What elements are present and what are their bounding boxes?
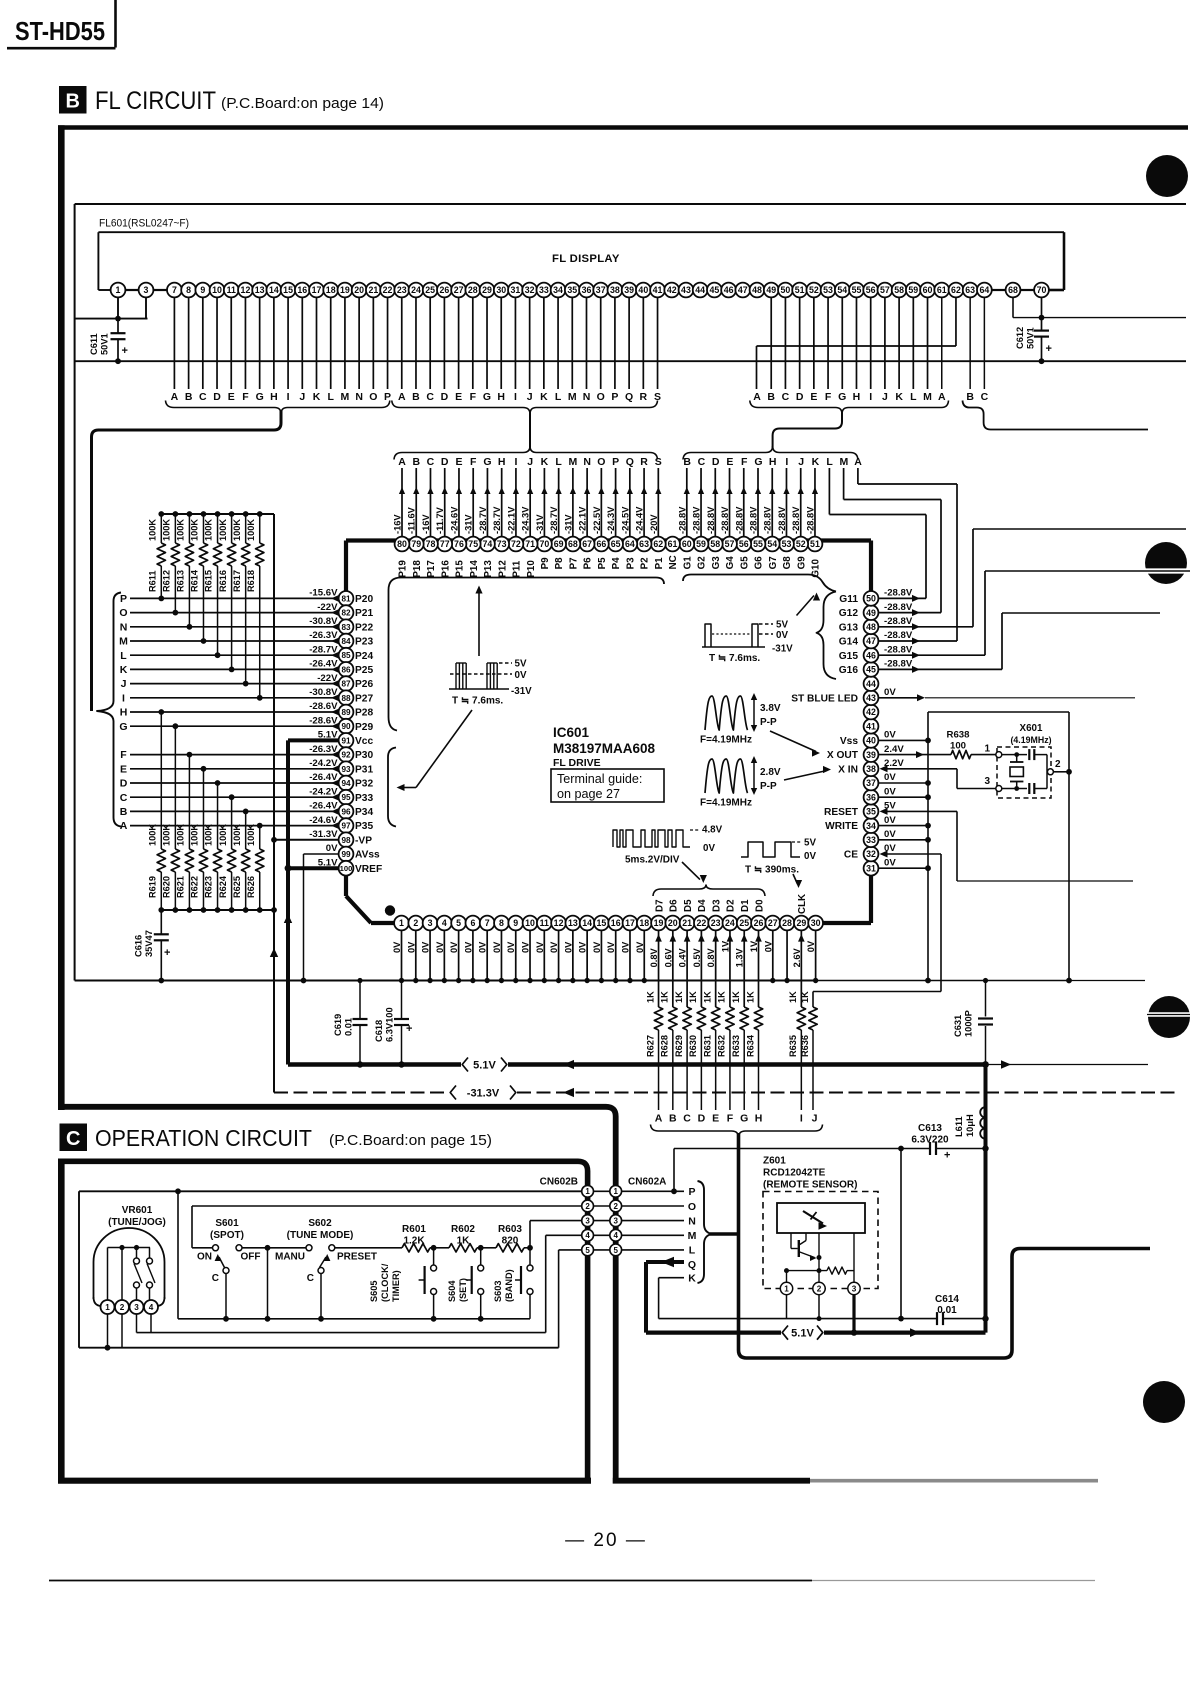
svg-text:18: 18 <box>326 285 336 295</box>
frame bottom extension right of CN602A <box>613 1478 1098 1484</box>
svg-text:Q: Q <box>626 456 634 468</box>
svg-text:-30.8V: -30.8V <box>309 687 338 698</box>
label 5.1V section C <box>782 1326 823 1340</box>
svg-text:D: D <box>698 1113 706 1125</box>
section C marker square <box>60 1124 88 1152</box>
bracket letters A-J <box>651 1125 823 1138</box>
svg-text:62: 62 <box>653 539 663 549</box>
svg-text:0V: 0V <box>563 941 573 953</box>
svg-text:(BAND): (BAND) <box>504 1269 514 1302</box>
svg-text:3: 3 <box>134 1303 139 1312</box>
svg-text:M: M <box>341 391 350 403</box>
registration mark 2 <box>1144 542 1190 584</box>
svg-text:22: 22 <box>696 918 706 928</box>
bracket IC letters A-S inverted <box>394 446 658 460</box>
svg-text:37: 37 <box>596 285 606 295</box>
labels IC bottom voltages <box>392 940 816 967</box>
svg-text:L: L <box>555 391 562 403</box>
svg-text:J: J <box>121 678 127 690</box>
svg-text:51: 51 <box>795 285 805 295</box>
svg-text:1K: 1K <box>702 991 712 1003</box>
svg-text:1: 1 <box>585 1187 590 1196</box>
svg-text:3: 3 <box>984 776 990 787</box>
svg-text:25: 25 <box>425 285 435 295</box>
svg-text:G7: G7 <box>768 556 779 570</box>
svg-text:0V: 0V <box>703 843 715 854</box>
svg-text:50: 50 <box>781 285 791 295</box>
svg-text:I: I <box>800 1113 803 1125</box>
svg-text:S604: S604 <box>447 1280 457 1302</box>
svg-text:+: + <box>122 345 128 357</box>
capacitor C614 <box>935 1294 985 1325</box>
svg-text:44: 44 <box>866 679 876 689</box>
svg-text:S603: S603 <box>493 1281 503 1302</box>
svg-text:S605: S605 <box>369 1281 379 1302</box>
junction dot VREF <box>285 865 292 872</box>
svg-text:-28.6V: -28.6V <box>309 701 338 712</box>
wire group3 elbow <box>773 410 842 449</box>
svg-text:N: N <box>583 391 591 403</box>
svg-text:100K: 100K <box>232 519 242 541</box>
svg-text:P24: P24 <box>355 651 373 662</box>
svg-text:-28.7V: -28.7V <box>478 506 488 534</box>
junction dot pins 68-70 tie <box>1039 315 1045 321</box>
svg-text:0V: 0V <box>884 829 896 840</box>
svg-text:RESET: RESET <box>824 807 859 818</box>
svg-text:1K: 1K <box>800 991 810 1003</box>
crystal X601 dashed box <box>997 747 1051 798</box>
label VR601 <box>108 1205 166 1228</box>
svg-text:CN602B: CN602B <box>540 1177 578 1188</box>
svg-text:16: 16 <box>611 918 621 928</box>
svg-text:T ≒ 7.6ms.: T ≒ 7.6ms. <box>452 696 503 707</box>
svg-text:1V: 1V <box>749 940 759 952</box>
svg-text:C: C <box>199 391 207 403</box>
svg-text:95: 95 <box>341 793 351 802</box>
svg-text:D: D <box>213 391 221 403</box>
svg-text:R633: R633 <box>731 1035 741 1057</box>
svg-text:56: 56 <box>866 285 876 295</box>
wire FL pins 49-64 verticals <box>771 297 984 389</box>
svg-text:R603: R603 <box>498 1224 522 1235</box>
svg-text:22: 22 <box>383 285 393 295</box>
node letters P-K <box>688 1186 697 1284</box>
junction dot AVss on bus <box>301 978 307 984</box>
svg-text:P22: P22 <box>355 622 373 633</box>
svg-text:F: F <box>825 391 832 403</box>
svg-text:0.4V: 0.4V <box>678 947 688 967</box>
svg-text:1K: 1K <box>745 991 755 1003</box>
svg-text:Vcc: Vcc <box>355 736 373 747</box>
svg-text:70: 70 <box>1037 285 1047 295</box>
svg-text:0.8V: 0.8V <box>649 947 659 967</box>
svg-text:R622: R622 <box>190 876 200 898</box>
IC U601 box outline <box>346 541 871 924</box>
svg-text:C: C <box>981 391 989 403</box>
svg-text:8: 8 <box>186 285 191 295</box>
svg-text:0V: 0V <box>478 941 488 953</box>
svg-text:D5: D5 <box>683 899 694 912</box>
svg-text:P12: P12 <box>497 560 508 578</box>
svg-text:+: + <box>944 1150 950 1162</box>
waveform X IN sine <box>700 756 781 809</box>
svg-text:L: L <box>555 456 562 468</box>
svg-text:R621: R621 <box>176 876 186 898</box>
svg-text:D4: D4 <box>697 899 708 912</box>
label -31.3V rail <box>450 1086 516 1100</box>
svg-text:X OUT: X OUT <box>827 750 859 761</box>
svg-text:P-P: P-P <box>760 717 777 728</box>
svg-text:P23: P23 <box>355 637 373 648</box>
svg-text:P: P <box>611 391 618 403</box>
svg-text:O: O <box>119 607 127 619</box>
svg-text:17: 17 <box>312 285 322 295</box>
svg-text:64: 64 <box>625 539 635 549</box>
node letters A-J <box>655 1113 818 1125</box>
svg-text:E: E <box>726 456 733 468</box>
svg-text:E: E <box>712 1113 719 1125</box>
svg-text:0V: 0V <box>521 941 531 953</box>
bracket group1 A-P <box>166 401 390 415</box>
svg-text:FL601(RSL0247~F): FL601(RSL0247~F) <box>99 218 189 230</box>
title box corner <box>7 0 116 48</box>
svg-text:0V: 0V <box>763 940 773 952</box>
svg-text:54: 54 <box>837 285 847 295</box>
svg-text:25: 25 <box>739 918 749 928</box>
VR601 internal contacts <box>108 1245 156 1300</box>
capacitor C618 <box>374 981 412 1068</box>
svg-text:0.01: 0.01 <box>937 1305 957 1316</box>
svg-text:T ≒ 7.6ms.: T ≒ 7.6ms. <box>709 653 760 664</box>
svg-text:44: 44 <box>695 285 705 295</box>
svg-text:36: 36 <box>582 285 592 295</box>
labels IC left voltages <box>309 588 338 869</box>
svg-text:D: D <box>441 456 449 468</box>
svg-text:-28.8V: -28.8V <box>884 630 913 641</box>
svg-text:100K: 100K <box>232 824 242 846</box>
svg-text:52: 52 <box>796 539 806 549</box>
svg-text:-28.8V: -28.8V <box>763 506 773 534</box>
svg-text:F=4.19MHz: F=4.19MHz <box>700 735 752 746</box>
wires Z601 pins down <box>787 1295 858 1336</box>
svg-text:36: 36 <box>866 792 876 802</box>
IC right pin circles 50-31 <box>864 591 879 876</box>
svg-text:H: H <box>769 456 777 468</box>
svg-text:0V: 0V <box>806 940 816 952</box>
svg-text:-15.6V: -15.6V <box>309 588 338 599</box>
svg-text:R629: R629 <box>674 1035 684 1057</box>
svg-text:-31V: -31V <box>563 514 573 534</box>
registration mark 1 <box>1146 155 1188 197</box>
svg-text:B: B <box>412 456 420 468</box>
svg-text:8: 8 <box>499 918 504 928</box>
svg-text:F: F <box>120 749 127 761</box>
svg-text:G: G <box>838 391 846 403</box>
svg-text:2: 2 <box>613 1202 618 1211</box>
svg-text:46: 46 <box>724 285 734 295</box>
svg-text:C631: C631 <box>953 1015 963 1037</box>
svg-text:57: 57 <box>880 285 890 295</box>
crystal X601 contacts <box>996 752 1054 792</box>
svg-text:59: 59 <box>696 539 706 549</box>
svg-text:35: 35 <box>866 807 876 817</box>
svg-text:R627: R627 <box>645 1035 655 1057</box>
wire AVss jog <box>304 854 339 981</box>
arrow waveform1 to P30 bracket <box>397 710 473 791</box>
junction dot C613 left <box>898 1146 904 1152</box>
registration mark 4 <box>1143 1381 1185 1423</box>
wire 5.1V rail <box>288 1060 1148 1069</box>
wire FL pin 3 stub <box>145 297 147 318</box>
svg-text:5.1V: 5.1V <box>473 1060 496 1072</box>
svg-text:33: 33 <box>866 835 876 845</box>
svg-text:P19: P19 <box>398 560 409 578</box>
svg-text:3: 3 <box>613 1216 618 1225</box>
svg-text:P3: P3 <box>625 557 636 570</box>
svg-text:65: 65 <box>611 539 621 549</box>
svg-text:J: J <box>812 1113 818 1125</box>
svg-text:18: 18 <box>639 918 649 928</box>
svg-text:-28.8V: -28.8V <box>706 506 716 534</box>
resistor R601 1.2K <box>335 1224 437 1252</box>
svg-text:63: 63 <box>639 539 649 549</box>
svg-text:N: N <box>355 391 363 403</box>
svg-text:78: 78 <box>426 539 436 549</box>
svg-text:(P.C.Board:on page 14): (P.C.Board:on page 14) <box>221 96 384 112</box>
svg-text:-28.8V: -28.8V <box>884 644 913 655</box>
svg-text:VR601: VR601 <box>122 1205 153 1216</box>
crystal X601 element <box>1002 752 1024 791</box>
svg-text:R632: R632 <box>717 1035 727 1057</box>
svg-text:15: 15 <box>597 918 607 928</box>
svg-text:100K: 100K <box>246 824 256 846</box>
svg-text:0V: 0V <box>449 941 459 953</box>
Z601 pin circles <box>780 1282 860 1294</box>
svg-text:P31: P31 <box>355 764 373 775</box>
svg-text:O: O <box>369 391 377 403</box>
svg-text:B: B <box>683 456 691 468</box>
wire C613 line <box>674 1149 930 1192</box>
svg-text:35: 35 <box>567 285 577 295</box>
label CN602B <box>540 1177 578 1188</box>
svg-text:42: 42 <box>667 285 677 295</box>
svg-text:G: G <box>483 391 491 403</box>
svg-text:79: 79 <box>411 539 421 549</box>
svg-text:A: A <box>655 1113 663 1125</box>
wire FL601 top line <box>75 203 1186 205</box>
capacitor C619 <box>333 978 368 1068</box>
svg-text:G: G <box>754 456 762 468</box>
svg-text:P-P: P-P <box>760 781 777 792</box>
wire FL display outline <box>98 232 1064 290</box>
svg-text:0V: 0V <box>435 941 445 953</box>
wire IC left pin leads P20-P35 <box>130 595 339 829</box>
svg-text:0V: 0V <box>592 941 602 953</box>
svg-text:R623: R623 <box>204 876 214 898</box>
svg-text:I: I <box>869 391 872 403</box>
resistor R603 820 <box>481 1224 533 1252</box>
svg-text:5V: 5V <box>776 620 788 631</box>
svg-text:-28.8V: -28.8V <box>791 506 801 534</box>
svg-text:D0: D0 <box>754 899 765 912</box>
svg-text:1: 1 <box>105 1303 110 1312</box>
svg-text:R618: R618 <box>246 570 256 592</box>
svg-text:0V: 0V <box>326 843 338 854</box>
svg-text:21: 21 <box>368 285 378 295</box>
junction dot X601 loop on 0V bus <box>1066 978 1072 984</box>
svg-text:M: M <box>688 1230 697 1242</box>
wire pin32 CE jog <box>813 851 941 1008</box>
svg-text:C: C <box>307 1273 314 1284</box>
svg-text:P5: P5 <box>597 557 608 570</box>
svg-text:75: 75 <box>468 539 478 549</box>
page number <box>565 1530 647 1551</box>
svg-text:12: 12 <box>241 285 251 295</box>
svg-text:34: 34 <box>866 821 876 831</box>
resistor R636 1K <box>800 991 817 1110</box>
svg-text:A: A <box>753 391 761 403</box>
svg-text:J: J <box>882 391 888 403</box>
svg-text:(SPOT): (SPOT) <box>210 1230 244 1241</box>
svg-text:100: 100 <box>340 864 353 873</box>
svg-text:CE: CE <box>844 850 858 861</box>
module Z601 dashed box <box>763 1192 878 1289</box>
svg-text:ST BLUE LED: ST BLUE LED <box>791 693 858 704</box>
svg-text:24: 24 <box>411 285 421 295</box>
svg-text:26: 26 <box>439 285 449 295</box>
svg-text:29: 29 <box>482 285 492 295</box>
svg-text:53: 53 <box>782 539 792 549</box>
svg-text:(SET): (SET) <box>458 1278 468 1302</box>
svg-text:R631: R631 <box>702 1035 712 1057</box>
svg-text:-24.2V: -24.2V <box>309 758 338 769</box>
svg-text:A: A <box>171 391 179 403</box>
svg-text:97: 97 <box>341 822 351 831</box>
node IC letters A-S <box>398 456 662 468</box>
svg-text:100K: 100K <box>190 824 200 846</box>
bracket IC letters G-group inverted <box>683 446 858 460</box>
svg-text:0.5V: 0.5V <box>692 947 702 967</box>
wire G13 to page edge <box>878 529 1186 630</box>
svg-text:47: 47 <box>866 636 876 646</box>
junction dot CN602A row1 <box>671 1188 677 1194</box>
svg-text:96: 96 <box>341 807 351 816</box>
svg-text:-31V: -31V <box>535 514 545 534</box>
svg-text:68: 68 <box>1008 285 1018 295</box>
junction dot Vss bus on 0V bus <box>925 978 931 984</box>
wire K to Z601 pin1 <box>659 1278 787 1319</box>
svg-text:G1: G1 <box>682 556 693 570</box>
svg-text:50: 50 <box>866 594 876 604</box>
svg-text:P21: P21 <box>355 608 373 619</box>
svg-text:L: L <box>826 456 833 468</box>
svg-text:85: 85 <box>341 651 351 660</box>
svg-text:1: 1 <box>984 744 990 755</box>
svg-text:P28: P28 <box>355 708 373 719</box>
svg-text:0V: 0V <box>578 941 588 953</box>
svg-text:R616: R616 <box>218 570 228 592</box>
svg-text:-VP: -VP <box>355 835 372 846</box>
svg-text:-30.8V: -30.8V <box>309 616 338 627</box>
switch S603 BAND <box>493 1248 533 1319</box>
svg-text:37: 37 <box>866 778 876 788</box>
svg-text:CN602A: CN602A <box>628 1177 666 1188</box>
label FL601 <box>99 218 189 230</box>
bracket P19-P1 and P20-P29 group <box>389 578 665 731</box>
svg-text:41: 41 <box>866 721 876 731</box>
bottom rule <box>49 1580 1095 1582</box>
svg-text:CLK: CLK <box>797 894 808 914</box>
svg-text:-26.4V: -26.4V <box>309 801 338 812</box>
registration mark 3 <box>1147 996 1190 1038</box>
wire FL pin 68 to right edge <box>1013 297 1186 317</box>
Z601 IR symbol <box>803 1211 827 1230</box>
svg-text:K: K <box>540 391 548 403</box>
junction dot Vss pin40 <box>925 738 931 744</box>
svg-text:1K: 1K <box>731 991 741 1003</box>
svg-text:10: 10 <box>212 285 222 295</box>
arrow 5.1V riser up <box>284 914 292 923</box>
svg-text:41: 41 <box>653 285 663 295</box>
svg-text:7: 7 <box>485 918 490 928</box>
svg-text:0V: 0V <box>606 941 616 953</box>
svg-text:-11.7V: -11.7V <box>435 506 445 534</box>
wire pins 1-3 lower tie <box>75 318 148 320</box>
svg-text:G: G <box>740 1113 748 1125</box>
svg-text:2.8V: 2.8V <box>760 767 781 778</box>
svg-text:H: H <box>497 391 505 403</box>
svg-text:100K: 100K <box>204 824 214 846</box>
svg-text:RCD12042TE: RCD12042TE <box>763 1168 826 1179</box>
svg-text:N: N <box>583 456 591 468</box>
svg-text:S: S <box>655 456 662 468</box>
svg-text:99: 99 <box>341 850 351 859</box>
node letters A-S group2 <box>398 391 661 403</box>
svg-text:P15: P15 <box>455 560 466 578</box>
svg-text:PRESET: PRESET <box>337 1252 377 1263</box>
svg-text:0.6V: 0.6V <box>663 947 673 967</box>
labels G1-G10 -28.8V <box>677 506 815 534</box>
svg-text:+: + <box>164 947 170 959</box>
svg-text:77: 77 <box>440 539 450 549</box>
svg-text:A: A <box>398 391 406 403</box>
svg-text:100K: 100K <box>148 519 158 541</box>
svg-text:O: O <box>597 391 605 403</box>
svg-text:F: F <box>741 456 748 468</box>
svg-text:ST-HD55: ST-HD55 <box>15 16 105 46</box>
svg-text:5: 5 <box>456 918 461 928</box>
svg-text:1K: 1K <box>660 991 670 1003</box>
svg-text:47: 47 <box>738 285 748 295</box>
svg-text:40: 40 <box>638 285 648 295</box>
svg-text:P10: P10 <box>526 560 537 578</box>
svg-text:92: 92 <box>341 751 351 760</box>
svg-text:32: 32 <box>525 285 535 295</box>
wire -31.3V rail <box>274 1088 1175 1097</box>
svg-text:100K: 100K <box>162 824 172 846</box>
label CN602A <box>628 1177 666 1188</box>
svg-text:76: 76 <box>454 539 464 549</box>
svg-text:2: 2 <box>585 1202 590 1211</box>
svg-text:0.8V: 0.8V <box>706 947 716 967</box>
svg-text:43: 43 <box>866 693 876 703</box>
svg-text:56: 56 <box>739 539 749 549</box>
svg-text:L: L <box>120 650 127 662</box>
svg-text:K: K <box>895 391 903 403</box>
resistors R619-R626 100K <box>148 709 264 910</box>
svg-text:5.1V: 5.1V <box>791 1328 814 1340</box>
arrow waveform2 to G-brace <box>797 593 821 616</box>
